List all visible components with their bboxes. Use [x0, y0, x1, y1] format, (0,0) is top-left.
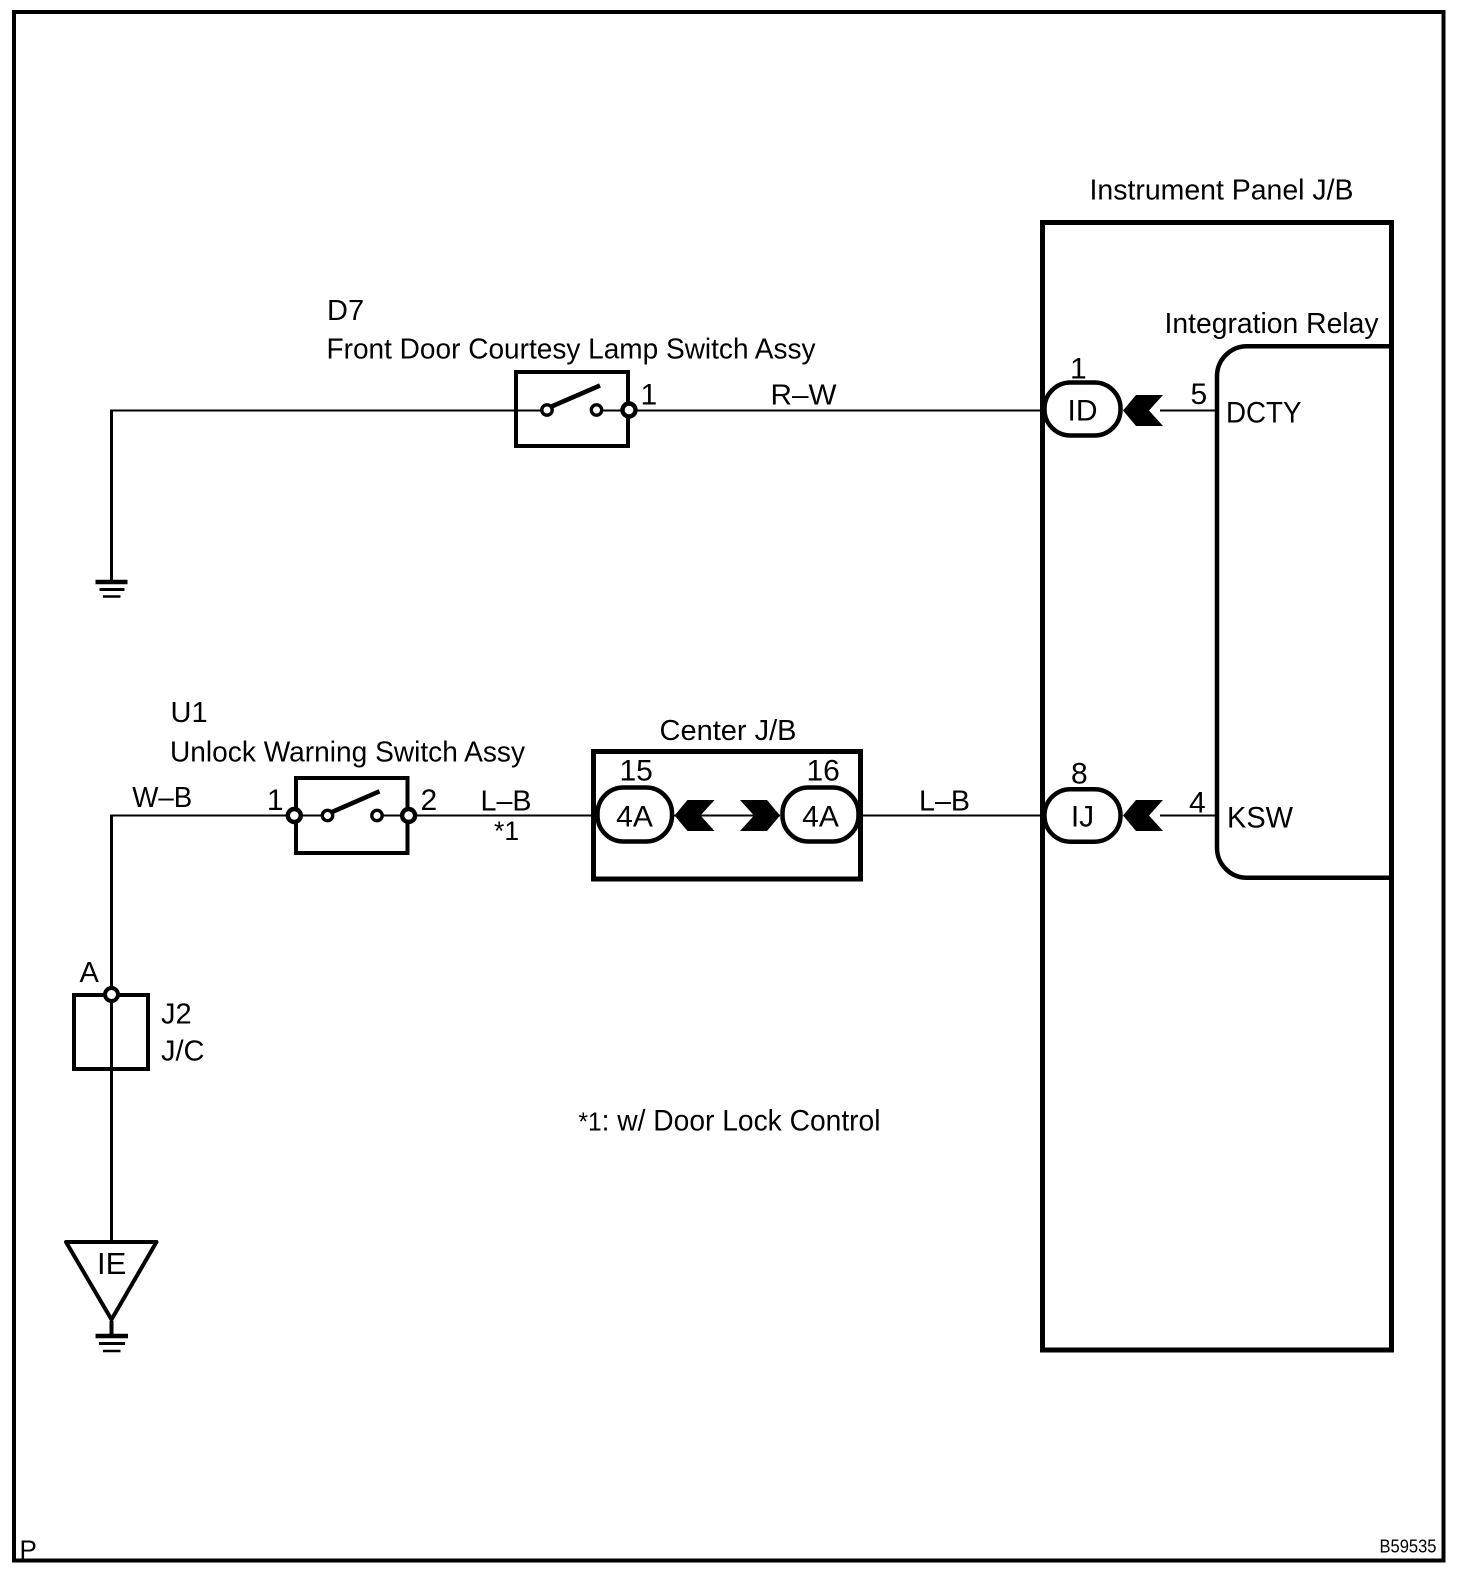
svg-text:5: 5: [1191, 378, 1208, 411]
instrument panel J/B box: [1043, 223, 1392, 1351]
switch D7 contact circle right: [591, 405, 601, 415]
ground triangle IE: [66, 1242, 157, 1320]
wire between 4A ovals: [674, 815, 780, 817]
switch U1 contact circle left: [322, 810, 332, 820]
svg-text:IJ: IJ: [1071, 801, 1094, 834]
switch D7 inner wire: [602, 410, 622, 412]
svg-text:L–B: L–B: [481, 786, 532, 818]
ground symbol row1: [96, 582, 128, 597]
svg-text:4A: 4A: [802, 800, 839, 833]
wire W-B horizontal: [112, 815, 291, 817]
svg-text:1: 1: [1070, 353, 1087, 386]
switch U1 pin 2 circle: [402, 809, 415, 822]
junction J2 box: [74, 995, 148, 1069]
svg-text:IE: IE: [97, 1246, 126, 1281]
svg-text:KSW: KSW: [1227, 802, 1294, 835]
arrow into ID: [1123, 395, 1163, 426]
node A circle: [105, 988, 118, 1001]
arrow into IJ: [1123, 800, 1163, 831]
svg-text:*1: w/ Door Lock Control: *1: w/ Door Lock Control: [579, 1105, 881, 1138]
arrow into right 4A: [740, 800, 780, 831]
switch D7 arm: [552, 386, 601, 407]
svg-text:Center J/B: Center J/B: [660, 715, 797, 747]
wire KSW to arrow: [1160, 815, 1218, 817]
wire left vertical row2: [110, 815, 113, 1243]
wire R-W: [637, 410, 1043, 412]
svg-text:2: 2: [421, 784, 438, 817]
wire row1 left vertical: [110, 410, 113, 581]
integration relay box: [1217, 346, 1394, 878]
svg-text:W–B: W–B: [132, 782, 192, 814]
svg-text:8: 8: [1071, 758, 1088, 791]
svg-text:J/C: J/C: [161, 1036, 205, 1068]
svg-text:D7: D7: [327, 295, 364, 327]
svg-text:Front Door Courtesy Lamp Switc: Front Door Courtesy Lamp Switch Assy: [327, 334, 816, 366]
switch D7 box: [516, 372, 628, 446]
wire DCTY to arrow: [1160, 410, 1218, 412]
connector 4A oval right: [783, 788, 859, 842]
switch U1 arm: [332, 791, 380, 812]
svg-text:DCTY: DCTY: [1226, 397, 1302, 430]
svg-text:R–W: R–W: [771, 380, 838, 412]
switch U1 box: [296, 778, 408, 853]
svg-text:J2: J2: [161, 999, 192, 1031]
ground symbol bottom: [96, 1336, 129, 1351]
svg-text:A: A: [80, 957, 100, 989]
svg-text:*1: *1: [494, 816, 519, 846]
svg-text:16: 16: [807, 755, 840, 788]
switch U1 pin 1 circle: [288, 809, 301, 822]
svg-text:Instrument Panel J/B: Instrument Panel J/B: [1090, 175, 1354, 207]
wire L-B right: [861, 815, 1043, 817]
ground stem: [110, 1321, 114, 1336]
svg-text:U1: U1: [171, 697, 208, 729]
svg-text:ID: ID: [1068, 395, 1098, 428]
switch U1 contact circle right: [372, 810, 382, 820]
svg-text:B59535: B59535: [1380, 1537, 1437, 1557]
connector ID oval: [1045, 383, 1121, 436]
connector IJ oval: [1045, 789, 1121, 842]
svg-text:P: P: [20, 1535, 37, 1565]
wire L-B left: [417, 815, 597, 817]
svg-text:15: 15: [620, 755, 653, 788]
svg-text:1: 1: [267, 784, 284, 817]
wire row1 left horizontal: [112, 410, 543, 412]
connector 4A oval left: [598, 788, 673, 842]
svg-text:Integration Relay: Integration Relay: [1165, 308, 1379, 340]
svg-text:4A: 4A: [616, 800, 653, 833]
svg-text:1: 1: [641, 379, 658, 412]
arrow into left 4A: [675, 800, 715, 831]
switch D7 pin 1 circle: [623, 404, 636, 417]
svg-text:4: 4: [1189, 787, 1206, 820]
switch D7 contact circle left: [542, 405, 552, 415]
center J/B box: [594, 752, 861, 880]
switch U1 inner wire: [301, 815, 402, 817]
svg-text:L–B: L–B: [919, 786, 970, 818]
svg-text:Unlock Warning Switch Assy: Unlock Warning Switch Assy: [170, 737, 525, 769]
